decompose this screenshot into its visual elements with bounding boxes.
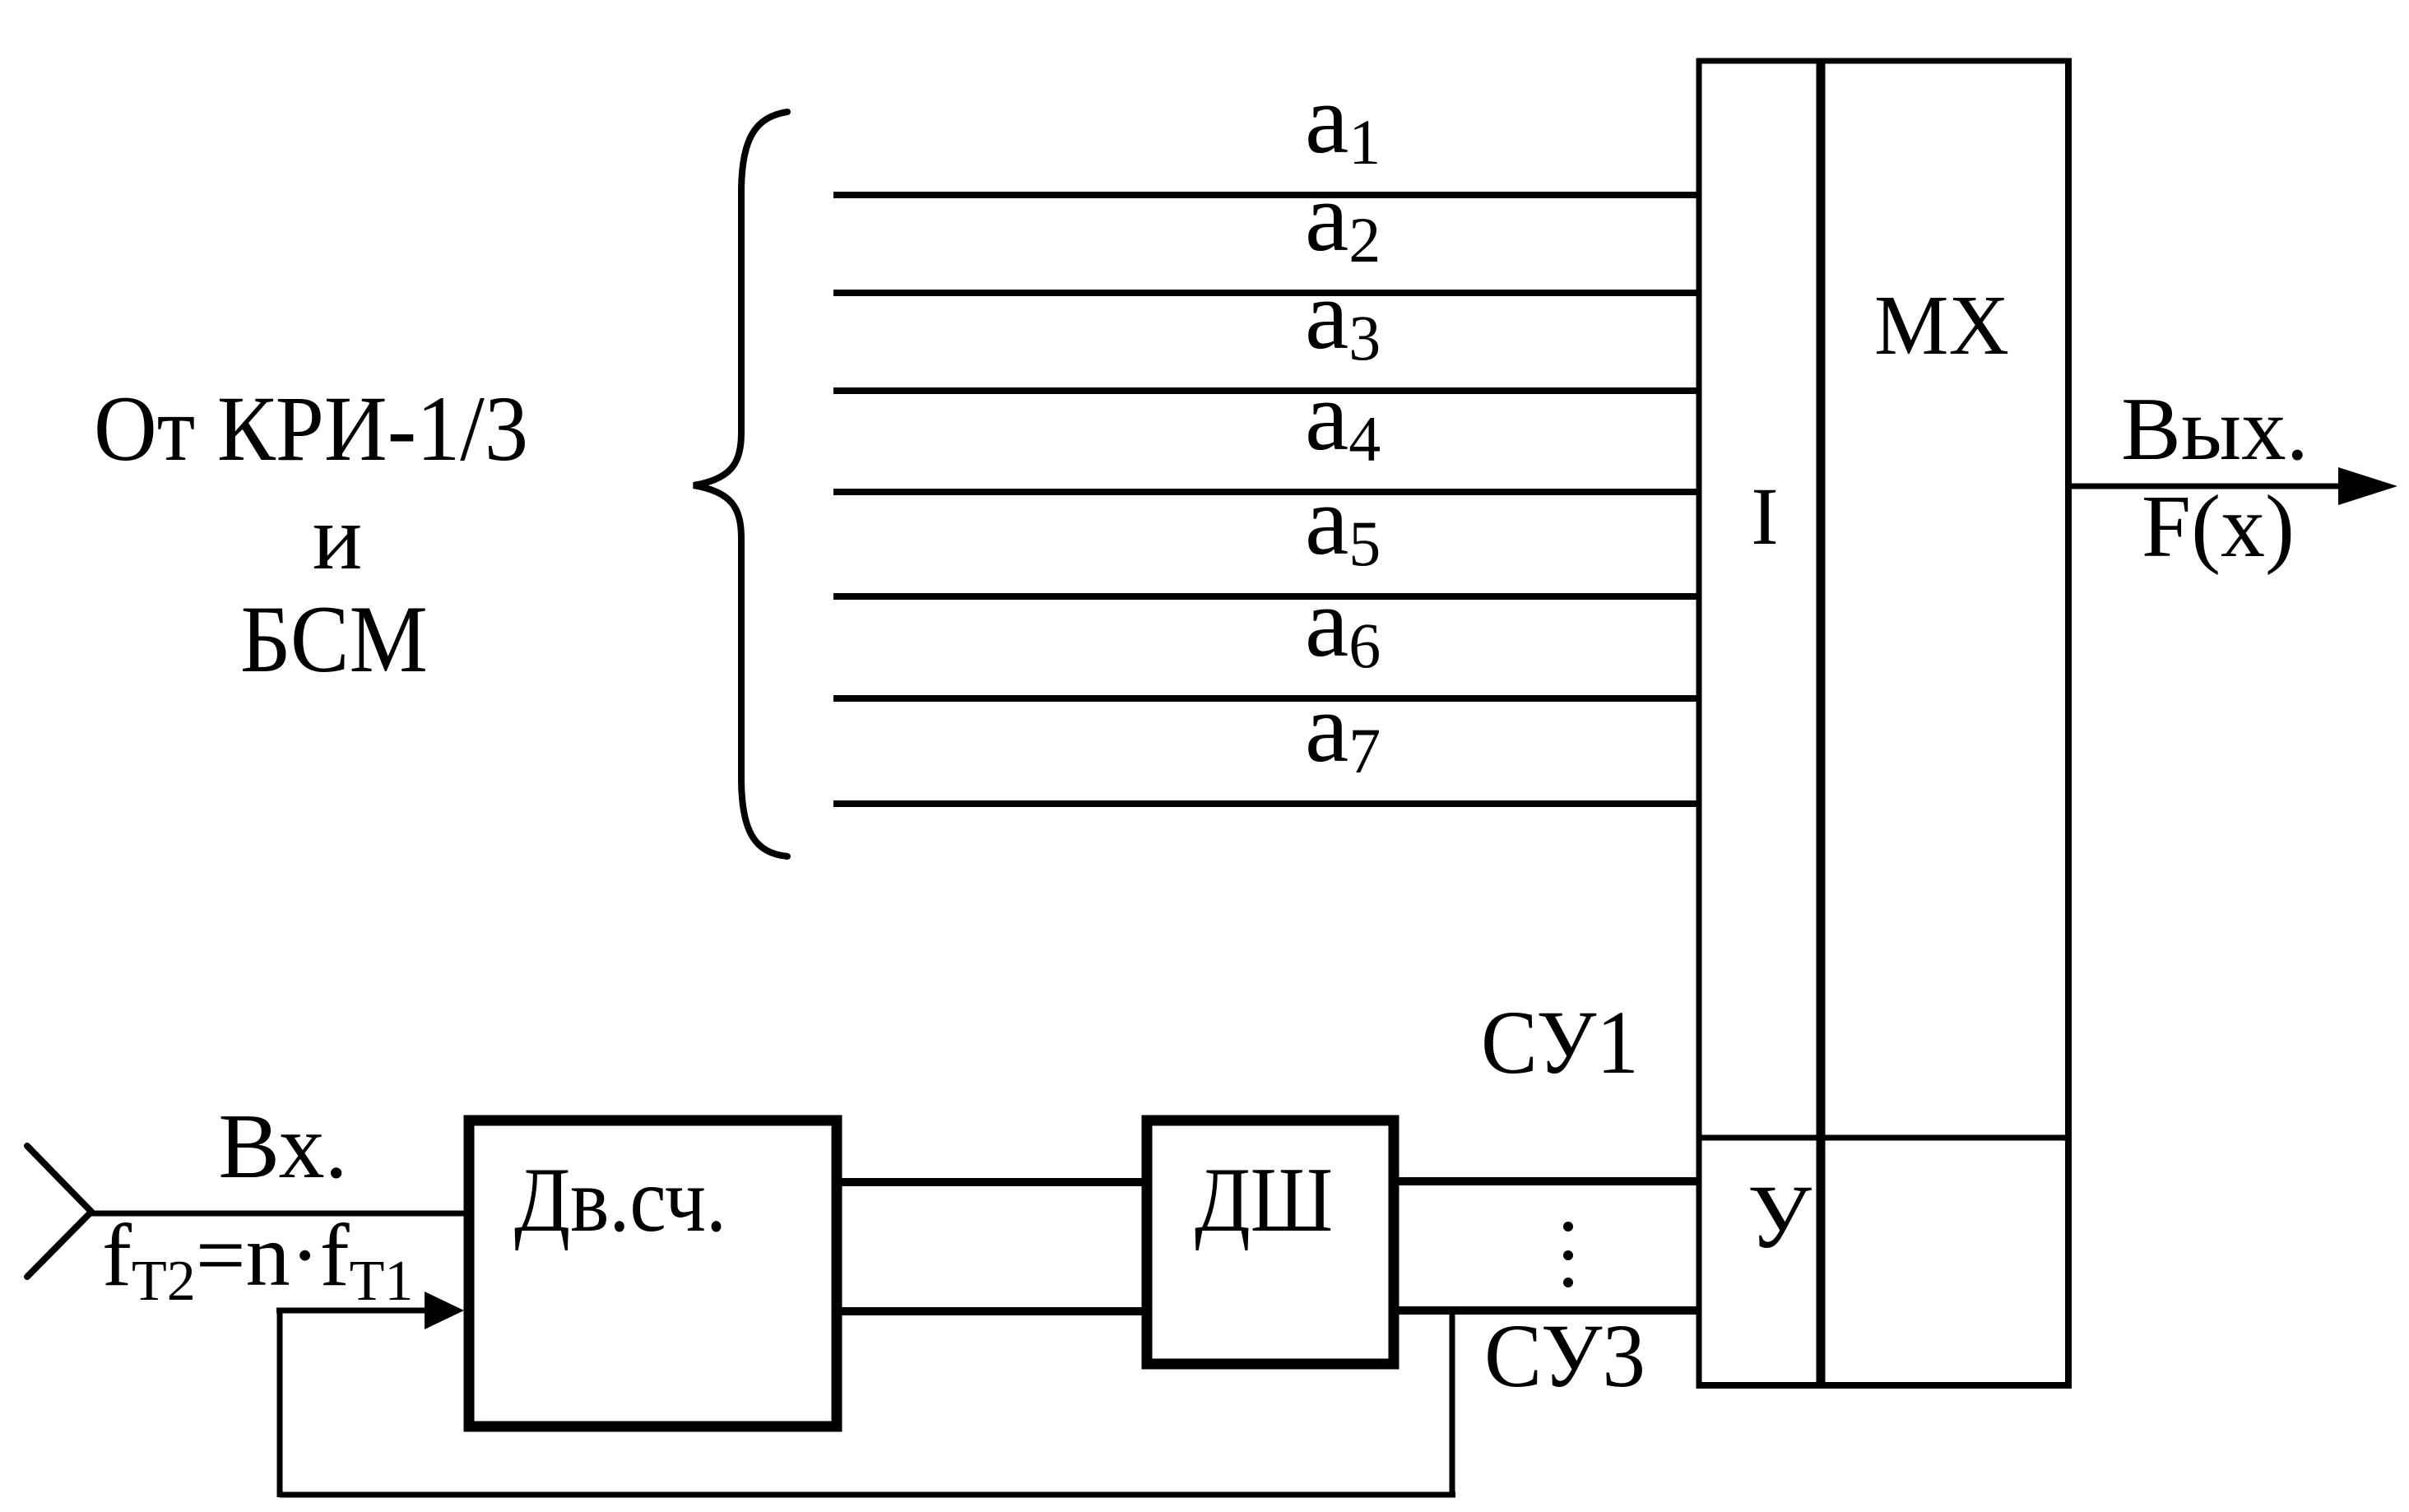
ellipsis dots between СУ wires [1563, 1222, 1573, 1231]
block I top edge [1697, 58, 1826, 64]
svg-text:От КРИ-1/3: От КРИ-1/3 [94, 378, 528, 480]
svg-text:СУ3: СУ3 [1484, 1306, 1645, 1406]
block ДШ (decoder) [1147, 1120, 1394, 1364]
input chevron [27, 1146, 91, 1277]
svg-text:У: У [1748, 1166, 1812, 1267]
wire decoder to У (bottom, СУ3) [1399, 1306, 1697, 1315]
divider between I and MX [1817, 58, 1826, 1389]
svg-text:ДШ: ДШ [1195, 1149, 1333, 1251]
svg-text:Дв.сч.: Дв.сч. [514, 1149, 726, 1251]
feedback wire: into counter [276, 1308, 428, 1314]
wire a4 [833, 489, 1697, 495]
feedback arrowhead [425, 1292, 464, 1329]
svg-text:БСМ: БСМ [240, 587, 428, 693]
output wire [2072, 484, 2345, 489]
output arrowhead [2338, 467, 2397, 505]
feedback wire: bottom horizontal [280, 1492, 1455, 1498]
label "От КРИ-1/3 и БСМ" [94, 378, 528, 693]
wire a3 [833, 387, 1697, 394]
svg-text:СУ1: СУ1 [1481, 992, 1639, 1092]
svg-text:I: I [1751, 471, 1778, 562]
feedback wire: down from СУ3 wire [1450, 1310, 1455, 1497]
block I bottom edge [1697, 1382, 1826, 1389]
horizontal divider above У row [1697, 1135, 2068, 1141]
wire a5 [833, 593, 1697, 600]
svg-text:Вх.: Вх. [218, 1096, 347, 1198]
block I (AND gate column) left edge [1697, 58, 1702, 1389]
svg-text:Вых.: Вых. [2121, 379, 2309, 479]
svg-text:F(x): F(x) [2142, 478, 2295, 576]
input wire Вх [91, 1211, 464, 1217]
block Дв.сч. (binary counter) [469, 1120, 837, 1426]
brace (left curly bracket over bus lines) [694, 112, 787, 856]
wire a1 [833, 192, 1697, 198]
svg-text:МХ: МХ [1874, 278, 2009, 373]
wire a2 [833, 290, 1697, 296]
wire counter to decoder (bottom) [842, 1307, 1142, 1315]
feedback wire: up at left [277, 1310, 283, 1497]
wire a7 [833, 800, 1697, 807]
wire a6 [833, 695, 1697, 702]
block MX right edge [2065, 58, 2072, 1389]
block MX bottom edge [1817, 1382, 2072, 1389]
wire decoder to У (top, СУ1) [1399, 1177, 1697, 1185]
block MX top edge [1817, 58, 2072, 64]
svg-text:и: и [313, 486, 362, 589]
wire counter to decoder (top) [842, 1178, 1142, 1186]
